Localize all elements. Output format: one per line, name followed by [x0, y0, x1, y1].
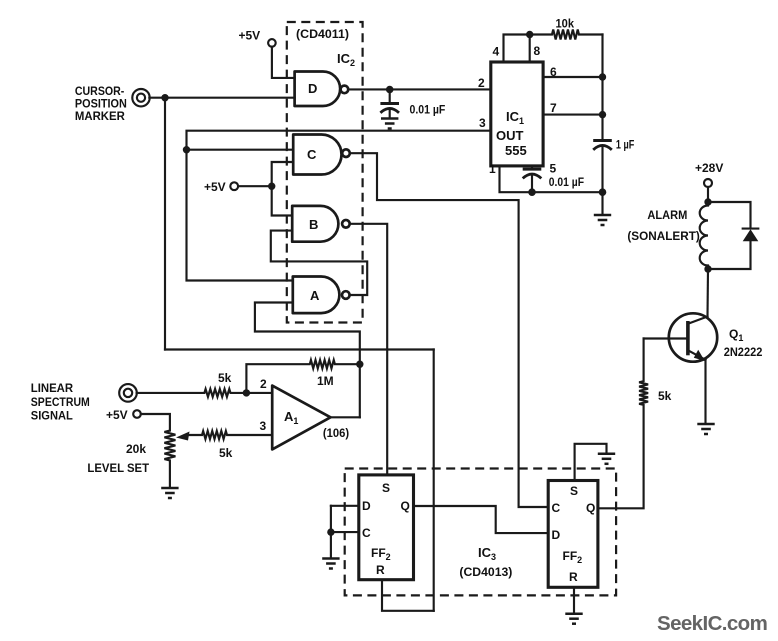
svg-text:D: D [308, 81, 317, 96]
wire feedback with resistor 1M [246, 360, 359, 393]
label CURSOR-POSITION MARKER [75, 84, 127, 123]
nand gate D [295, 72, 349, 107]
capacitor 0.01uF at gate D output [389, 89, 391, 103]
flip-flop FF2 box [548, 481, 598, 588]
555 timer IC1 box [491, 62, 543, 166]
svg-text:C: C [362, 526, 371, 540]
svg-text:4: 4 [493, 45, 500, 59]
node dot 1M junction [356, 361, 363, 368]
wire +28V down [707, 187, 709, 202]
wire FF1 C input [331, 531, 359, 533]
svg-text:2N2222: 2N2222 [724, 345, 763, 359]
svg-text:SPECTRUM: SPECTRUM [31, 395, 90, 409]
pin 1 wire [500, 166, 603, 192]
wire FF2 R to ground [573, 587, 575, 612]
svg-text:Q: Q [401, 499, 410, 513]
svg-text:1M: 1M [317, 374, 334, 388]
node dot ground wire [599, 188, 607, 196]
svg-text:20k: 20k [126, 442, 146, 456]
dashed box CD4011 [287, 22, 363, 323]
ground below capacitor [381, 119, 398, 129]
wire to FF1 R [382, 580, 434, 611]
node +5V junction dot (mid) [268, 183, 275, 190]
svg-text:5k: 5k [218, 371, 232, 385]
wire marker down to FF1 reset [433, 350, 435, 611]
ground FF2 S [598, 454, 615, 464]
wire op-amp output [331, 416, 360, 418]
op-amp A1 [272, 386, 330, 450]
svg-text:(SONALERT): (SONALERT) [627, 229, 699, 243]
flip-flop FF1 box [359, 475, 414, 580]
svg-text:A: A [310, 288, 320, 303]
svg-text:C: C [552, 501, 561, 515]
wiper arrow into pot [176, 432, 190, 441]
wire marker horizontal run [165, 348, 434, 350]
diode D1 branch [708, 202, 751, 228]
ground below emitter [697, 424, 714, 434]
wire +5V to gate D input 1 [272, 47, 295, 78]
label LINEAR SPECTRUM SIGNAL [31, 381, 90, 423]
wire right vertical from 10k [601, 35, 603, 141]
svg-text:5k: 5k [219, 446, 233, 460]
svg-text:R: R [376, 563, 385, 577]
ground below pot [161, 488, 178, 498]
svg-text:+5V: +5V [106, 408, 128, 422]
wire signal input with resistor 5k [137, 389, 273, 397]
svg-text:(106): (106) [323, 426, 349, 440]
svg-text:OUT: OUT [496, 128, 524, 143]
nand gate C [293, 135, 350, 175]
node dot coil bottom [704, 265, 711, 272]
node +28V terminal [704, 179, 712, 187]
ground FF2 R [565, 614, 582, 624]
transistor Q1 2N2222 [644, 313, 718, 361]
wire to gate C input 1 [187, 149, 294, 151]
svg-text:+5V: +5V [204, 180, 226, 194]
resistor 5k at base [598, 339, 648, 509]
wire op-amp input 3 with resistor 5k [187, 431, 272, 439]
svg-text:555: 555 [505, 143, 527, 158]
inductor sonalert coil [700, 202, 708, 269]
wire FF2 S to ground [575, 444, 607, 481]
wire gate C output down to FF2 clock [350, 153, 549, 507]
node dot op-amp input junction [243, 389, 250, 396]
svg-text:7: 7 [550, 101, 557, 115]
pin 5 wire and capacitor 0.01uF [531, 166, 533, 169]
wire emitter to ground [704, 360, 706, 423]
svg-text:6: 6 [550, 65, 557, 79]
svg-text:8: 8 [534, 44, 541, 58]
ground FF1 inputs [322, 559, 339, 569]
svg-text:D: D [362, 499, 371, 513]
svg-text:MARKER: MARKER [75, 109, 125, 123]
pin 6 wire [543, 76, 602, 78]
wire marker to gate D input 2 [149, 97, 294, 99]
node dot pins 4-8 [526, 31, 533, 38]
svg-text:R: R [569, 570, 578, 584]
svg-text:Q: Q [586, 501, 595, 515]
svg-text:S: S [382, 481, 390, 495]
wire gate D output to 555 pin 2 [348, 88, 491, 90]
svg-text:+28V: +28V [695, 161, 723, 175]
svg-text:C: C [307, 147, 317, 162]
node junction at capacitor [386, 86, 394, 94]
svg-text:2: 2 [260, 377, 267, 391]
capacitor 1uF [593, 141, 612, 150]
wire FF1 D input [331, 505, 359, 507]
svg-text:S: S [570, 484, 578, 498]
wire gate B input 2 from gate A output [271, 231, 367, 295]
pin 4 wire [504, 35, 530, 63]
node +5V terminal (top) [268, 39, 276, 47]
wire +5V to junction [238, 185, 272, 187]
svg-text:5: 5 [550, 162, 557, 176]
svg-text:1: 1 [489, 162, 496, 176]
node +5V terminal (mid) [230, 182, 238, 190]
node junction dot at marker [161, 94, 168, 101]
potentiometer 20k LEVEL SET [141, 414, 176, 487]
svg-text:0.01 µF: 0.01 µF [410, 103, 446, 117]
svg-text:D: D [552, 528, 561, 542]
svg-text:+5V: +5V [239, 29, 261, 43]
svg-text:5k: 5k [658, 389, 672, 403]
svg-text:B: B [309, 217, 318, 232]
svg-text:SeekIC.com: SeekIC.com [657, 612, 767, 635]
node junction on pin3 line [183, 146, 190, 153]
wire gate A input 2 from op-amp output [255, 303, 360, 418]
wire 555 pin 3 to gates [187, 131, 491, 281]
dashed box IC3 CD4013 [345, 469, 616, 596]
svg-text:SIGNAL: SIGNAL [31, 409, 73, 423]
svg-text:LINEAR: LINEAR [31, 381, 74, 395]
pin 8 wire [529, 35, 531, 63]
svg-text:ALARM: ALARM [647, 208, 687, 222]
wire gate B output down to FF1 set [350, 224, 388, 475]
ground for 555 [594, 215, 611, 225]
svg-text:(CD4013): (CD4013) [459, 565, 512, 579]
wire FF1 Q to FF2 D [414, 506, 549, 533]
node +5V terminal (level) [133, 410, 141, 418]
svg-text:2: 2 [478, 76, 485, 90]
node: linear spectrum signal terminal J2 [119, 384, 137, 402]
wire D-C tie to ground [330, 506, 332, 558]
pin 7 wire [543, 114, 602, 116]
node dot coil top [704, 198, 711, 205]
svg-text:0.01 µF: 0.01 µF [549, 175, 584, 189]
svg-text:1 µF: 1 µF [616, 138, 634, 152]
node: cursor-position marker input terminal J1 [132, 89, 149, 106]
nand gate B [292, 206, 350, 242]
resistor 10k [530, 30, 603, 40]
svg-text:10k: 10k [556, 17, 575, 31]
svg-text:LEVEL SET: LEVEL SET [87, 461, 149, 475]
svg-text:(CD4011): (CD4011) [296, 27, 349, 41]
wire gate C input 2 loop [272, 162, 294, 216]
wire collector [706, 269, 709, 317]
nand gate A [293, 277, 350, 314]
svg-text:3: 3 [260, 419, 267, 433]
wire marker vertical down [164, 98, 166, 350]
svg-text:3: 3 [479, 116, 486, 130]
